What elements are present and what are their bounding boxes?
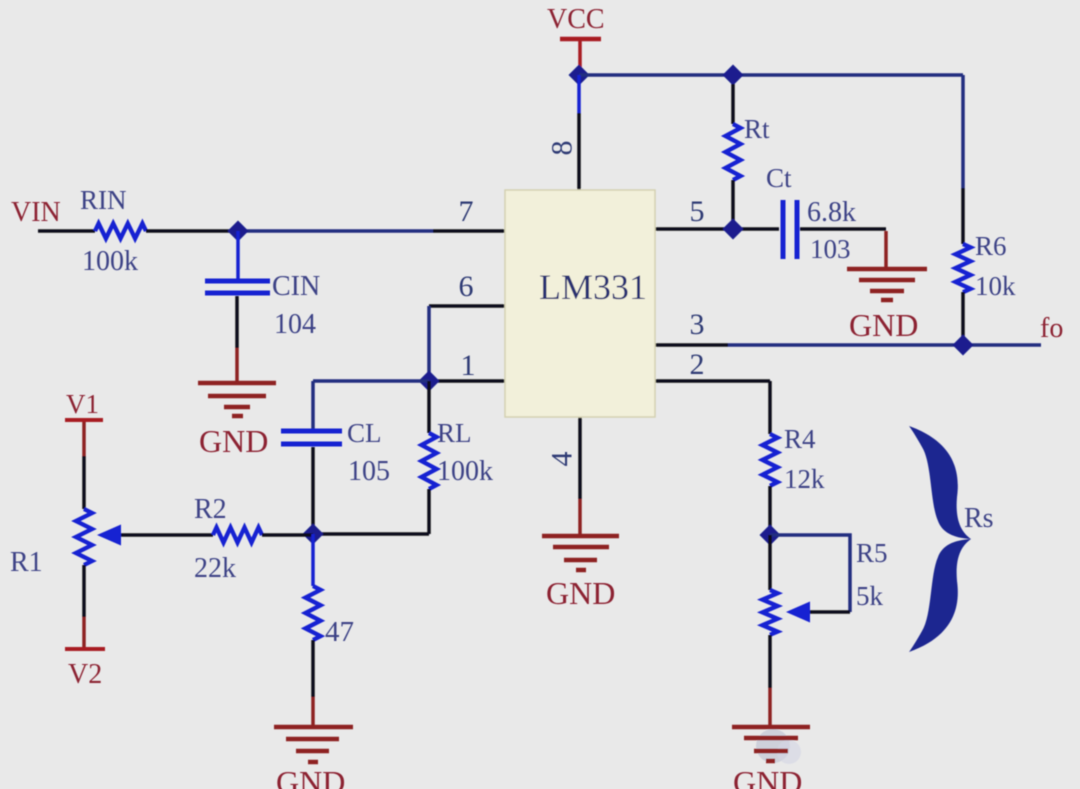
node VCC junction bbox=[569, 65, 590, 86]
wire pin 3 black part bbox=[655, 343, 728, 347]
svg-text:6.8k: 6.8k bbox=[807, 197, 856, 228]
wire node C to R5 loop right bbox=[770, 535, 850, 612]
wire pin 8 black part bbox=[577, 113, 581, 190]
wire V1 stem bbox=[82, 422, 86, 456]
svg-text:V1: V1 bbox=[66, 389, 99, 419]
wire Ct to ground corner bbox=[800, 227, 886, 231]
svg-text:104: 104 bbox=[274, 309, 316, 340]
resistor 47 bbox=[306, 586, 321, 640]
svg-text:R6: R6 bbox=[975, 231, 1007, 261]
wire R1 to V2 bbox=[82, 565, 86, 617]
wire pin 2 horizontal bbox=[655, 379, 770, 383]
svg-text:1: 1 bbox=[461, 349, 476, 382]
node pin5 Rt Ct junction bbox=[723, 219, 744, 240]
wire R2 to node B bbox=[262, 533, 313, 537]
svg-text:VCC: VCC bbox=[547, 4, 605, 35]
svg-text:fo: fo bbox=[1040, 313, 1063, 344]
wire RL bottom to node B bbox=[313, 532, 429, 536]
watermark circle bbox=[756, 729, 790, 763]
potentiometer R1 arrow head bbox=[97, 525, 121, 546]
svg-text:GND: GND bbox=[733, 764, 802, 789]
wire 47 to ground bbox=[311, 640, 315, 697]
wire VCC to top bus bbox=[578, 41, 582, 68]
power V2 bar bbox=[65, 647, 105, 651]
wire pin1 node down to RL bbox=[427, 381, 431, 433]
ground symbol below 47 bbox=[274, 725, 353, 730]
wire V1 to R1 bbox=[82, 456, 86, 509]
wire pin 5 bbox=[655, 227, 779, 231]
capacitor CL bbox=[281, 429, 342, 434]
svg-text:Rt: Rt bbox=[744, 114, 770, 144]
svg-text:CIN: CIN bbox=[272, 271, 320, 302]
svg-text:5: 5 bbox=[690, 195, 705, 228]
svg-text:103: 103 bbox=[810, 234, 851, 264]
wire down to CL bbox=[311, 381, 315, 429]
wire junction to Rt bbox=[731, 84, 735, 124]
wire R6 top black part bbox=[961, 188, 965, 244]
wire top bus horizontal bbox=[579, 73, 963, 77]
svg-text:RL: RL bbox=[437, 418, 472, 448]
wire node C down to R5 bbox=[768, 535, 772, 590]
svg-text:7: 7 bbox=[459, 195, 474, 228]
node A junction bbox=[228, 221, 249, 242]
node Rt top junction bbox=[723, 65, 744, 86]
svg-text:100k: 100k bbox=[82, 246, 138, 277]
potentiometer R5 arrow head bbox=[786, 602, 810, 623]
wire top bus corner down to R6 bbox=[961, 75, 965, 188]
wire node A down to CIN bbox=[236, 231, 240, 279]
brace Rs bbox=[909, 426, 971, 652]
wire R4 to node C bbox=[768, 486, 772, 535]
IC U1 LM331 body bbox=[505, 190, 655, 417]
wire RIN to node A bbox=[146, 229, 238, 233]
node B junction bbox=[303, 524, 324, 545]
svg-text:CL: CL bbox=[347, 418, 382, 448]
svg-text:GND: GND bbox=[546, 575, 615, 611]
wire pin 1 bbox=[429, 379, 505, 383]
svg-text:R2: R2 bbox=[194, 494, 227, 525]
wire R5 loop bottom to arrow bbox=[810, 610, 850, 614]
power V1 bar bbox=[65, 418, 103, 422]
ground symbol below R5 bbox=[732, 725, 810, 730]
svg-text:RIN: RIN bbox=[80, 185, 127, 215]
capacitor CIN bbox=[205, 279, 270, 284]
svg-text:Rs: Rs bbox=[964, 503, 994, 534]
svg-text:8: 8 bbox=[546, 141, 579, 156]
svg-text:2: 2 bbox=[690, 348, 705, 381]
ground symbol for pin 4 bbox=[542, 534, 619, 539]
svg-text:100k: 100k bbox=[437, 456, 493, 487]
wire to pin 7 black part bbox=[433, 229, 505, 233]
wire pin 4 bbox=[578, 417, 582, 499]
svg-text:VIN: VIN bbox=[11, 197, 61, 228]
resistor R6 bbox=[956, 244, 971, 292]
resistor RIN bbox=[95, 224, 146, 239]
svg-text:105: 105 bbox=[348, 456, 390, 487]
wire pin 6 horizontal bbox=[429, 304, 505, 308]
svg-text:4: 4 bbox=[546, 452, 579, 467]
wire RL bottom bbox=[427, 489, 431, 534]
power VCC bar bbox=[560, 37, 601, 42]
wire pin1 node left to CL bbox=[313, 379, 429, 383]
svg-text:GND: GND bbox=[199, 423, 268, 459]
svg-text:GND: GND bbox=[849, 307, 918, 343]
svg-text:Ct: Ct bbox=[766, 163, 792, 193]
node pin1 junction bbox=[419, 371, 440, 392]
svg-text:3: 3 bbox=[690, 308, 705, 341]
potentiometer R5 element bbox=[763, 590, 778, 635]
svg-text:5k: 5k bbox=[856, 581, 884, 611]
wire R1 wiper to R2 bbox=[120, 533, 213, 537]
resistor Rt bbox=[726, 124, 741, 180]
wire R6 bottom to fo node bbox=[961, 292, 965, 345]
capacitor Ct bbox=[781, 200, 786, 259]
resistor R4 bbox=[763, 434, 778, 486]
wire CIN to ground bbox=[235, 296, 239, 348]
svg-text:R4: R4 bbox=[784, 424, 816, 454]
svg-text:47: 47 bbox=[325, 616, 354, 648]
wire node B down to 47 bbox=[311, 534, 315, 586]
svg-text:R5: R5 bbox=[856, 538, 888, 568]
wire Rt to pin 5 node bbox=[731, 180, 735, 229]
wire VIN input to RIN bbox=[38, 229, 95, 233]
ground symbol for CIN bbox=[198, 381, 276, 386]
svg-text:R1: R1 bbox=[10, 547, 43, 578]
svg-text:LM331: LM331 bbox=[539, 267, 647, 307]
node C junction bbox=[760, 525, 781, 546]
wire node A to pin 7 blue part bbox=[238, 229, 433, 233]
potentiometer R1 element bbox=[76, 509, 92, 565]
wire CL to node B bbox=[311, 447, 315, 534]
resistor R2 bbox=[213, 528, 262, 543]
node fo junction bbox=[953, 335, 974, 356]
wire pin 2 corner down to R4 bbox=[768, 381, 772, 434]
svg-text:V2: V2 bbox=[68, 659, 102, 690]
svg-text:10k: 10k bbox=[975, 271, 1016, 301]
svg-text:22k: 22k bbox=[194, 553, 236, 584]
svg-text:GND: GND bbox=[276, 764, 345, 789]
svg-text:6: 6 bbox=[459, 270, 474, 303]
resistor RL bbox=[422, 433, 437, 489]
wire R5 to ground bbox=[768, 635, 772, 688]
wire pin 3 to fo output bbox=[728, 343, 1041, 347]
wire pin 6 corner down bbox=[427, 306, 431, 381]
svg-text:12k: 12k bbox=[784, 464, 825, 494]
ground symbol for Ct bbox=[847, 267, 927, 272]
wire pin 8 blue part bbox=[577, 75, 581, 113]
